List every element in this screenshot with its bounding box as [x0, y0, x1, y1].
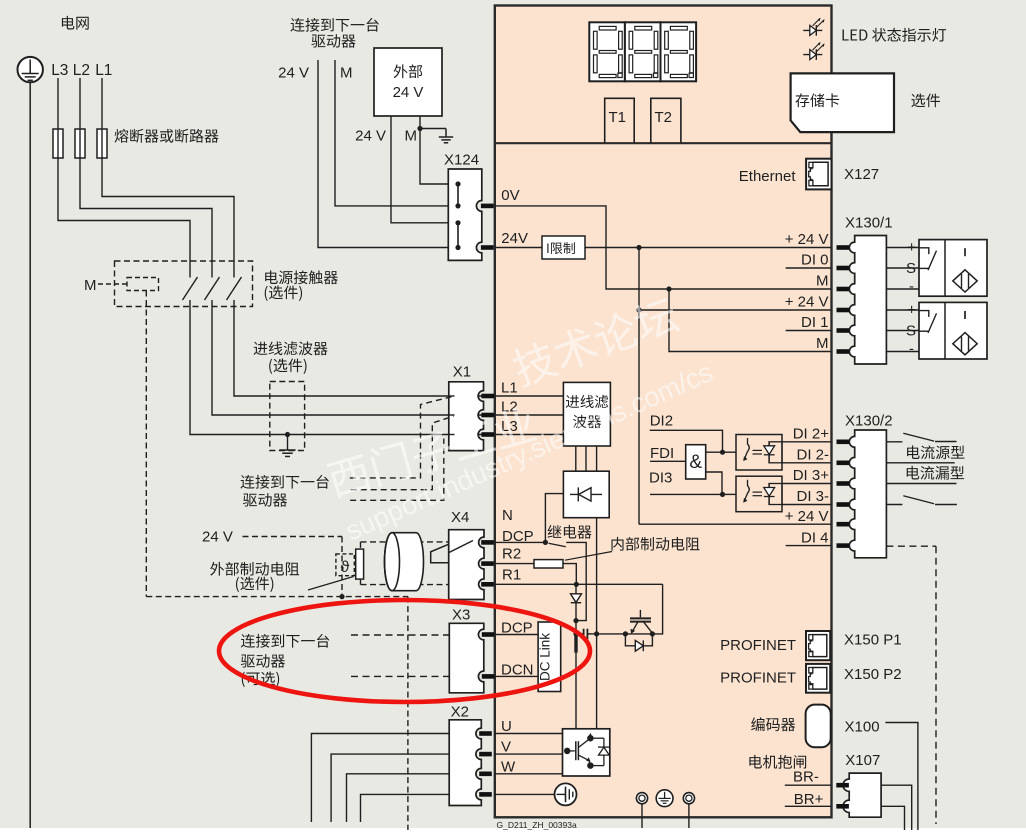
X130/1 pin 2: [837, 266, 850, 271]
dashed X3 wire 1: [351, 634, 449, 636]
control/power divider line: [495, 142, 832, 144]
wire DI2-: [782, 462, 831, 464]
label 驱动器 (X3): [241, 654, 285, 668]
optocoupler 1: [736, 435, 782, 471]
fuse F1: [97, 129, 107, 158]
wire V: [494, 753, 563, 755]
wire DI2: [650, 430, 723, 452]
label I限制: [547, 242, 575, 254]
svg-text:L1: L1: [95, 62, 112, 79]
label LED 状态指示灯: [843, 28, 947, 42]
svg-text:U: U: [501, 718, 512, 735]
wire DI2- ext: [886, 462, 954, 464]
dashed shield vertical: [407, 597, 409, 830]
X3 pin DCN: [482, 674, 495, 679]
wire chopper link: [597, 633, 626, 635]
wire PE to motor circle: [494, 793, 555, 795]
contactor contact 3: [227, 277, 242, 300]
7-segment digit 2: [625, 22, 661, 81]
svg-text:&: &: [689, 452, 702, 473]
junction R1: [574, 582, 579, 587]
fuse F2: [75, 129, 85, 158]
wire sensor2 +: [886, 309, 919, 311]
label 选件: [911, 93, 940, 107]
wire sensor2 S: [886, 330, 919, 332]
label 外部制动电阻: [210, 562, 299, 576]
connector X130/1: [849, 236, 886, 365]
shield terminal 1: [636, 793, 647, 804]
brake cable dashed left: [360, 542, 362, 585]
X1 pin L2: [481, 413, 494, 418]
wire L3 to contactor: [58, 158, 190, 278]
wire X107 out 1: [881, 785, 912, 830]
svg-text:N: N: [502, 507, 513, 524]
wire DI2+ ext: [886, 441, 902, 443]
wire stub L1 in X1: [449, 395, 455, 397]
label 电源接触器: [265, 270, 338, 284]
wire PE down: [29, 82, 31, 828]
svg-text:DI 2+: DI 2+: [793, 426, 830, 443]
X4 cable tick: [449, 541, 473, 553]
LED 2: [803, 42, 824, 60]
svg-text:24 V: 24 V: [355, 128, 386, 145]
X107 pin BR+: [836, 804, 849, 809]
X1 pin L1: [481, 394, 494, 399]
label 内部制动电阻: [611, 537, 699, 551]
svg-text:S: S: [906, 260, 916, 277]
sensor box 1: [919, 240, 987, 297]
wire DI3- ext: [886, 504, 902, 506]
dashed wire coil down: [145, 291, 147, 597]
wire relay fixed: [566, 542, 586, 620]
svg-text:BR-: BR-: [793, 769, 819, 786]
svg-text:24 V: 24 V: [278, 65, 309, 82]
wire U out: [311, 734, 449, 823]
memory card 存储卡: [791, 73, 894, 132]
wire relay coil: [545, 494, 563, 543]
junction DI3/AND: [720, 492, 725, 497]
wire DCN down: [596, 518, 598, 729]
svg-text:-: -: [909, 278, 914, 295]
wire +24V to X130/2: [639, 523, 831, 525]
X2 pin W: [479, 772, 492, 777]
X130/1 pin 5: [837, 328, 850, 333]
svg-text:DI 2-: DI 2-: [796, 447, 829, 464]
svg-text:+ 24 V: + 24 V: [785, 294, 829, 311]
wire +24V branch: [639, 309, 831, 311]
junction +24V a: [636, 245, 641, 250]
wire BR-: [785, 784, 831, 786]
label (选件) filter: [269, 358, 306, 373]
wire PE out: [361, 794, 450, 822]
dashed X3 wire 2: [351, 675, 449, 677]
svg-text:DI 0: DI 0: [801, 252, 829, 269]
wire BR+: [785, 805, 831, 807]
rectifier box: [563, 471, 609, 518]
dashed M rail horizontal: [146, 596, 408, 598]
svg-text:M: M: [816, 335, 829, 352]
wire M to ground: [420, 128, 446, 130]
wire R2 to resistor: [494, 563, 534, 565]
svg-text:24 V: 24 V: [393, 84, 424, 101]
label (选件) brake: [236, 576, 273, 591]
wire chopper mid: [625, 633, 652, 635]
switch DI3- blade: [903, 496, 934, 504]
filter ground symbol: [279, 450, 295, 456]
label 波器: [573, 415, 601, 428]
wire DI3: [650, 493, 723, 495]
svg-text:X130/2: X130/2: [845, 413, 893, 430]
svg-text:+: +: [907, 239, 916, 256]
svg-text:L1: L1: [501, 380, 518, 397]
red highlight ellipse: [219, 600, 590, 702]
wire 24V to X130/1: [585, 247, 831, 249]
contactor coil dashed box: [127, 278, 159, 291]
wire M branch: [669, 289, 831, 352]
AND gate box: [686, 445, 706, 479]
dashed wire M to coil: [98, 283, 127, 285]
internal brake resistor: [534, 560, 563, 568]
label 电流漏型: [907, 466, 964, 480]
X130/1 pin 4: [837, 308, 850, 313]
wire X3 DCN: [494, 675, 538, 677]
wire AND out 2: [706, 472, 722, 494]
wire sensor2 -: [886, 351, 919, 353]
svg-text:+ 24 V: + 24 V: [785, 508, 829, 525]
wire X100: [885, 723, 918, 831]
wire W: [494, 773, 563, 775]
wire filter-rect 1: [575, 446, 577, 471]
wire +24V down a: [638, 248, 640, 311]
svg-text:DI3: DI3: [649, 470, 672, 487]
svg-text:X4: X4: [451, 509, 469, 526]
wire FDI: [650, 460, 686, 462]
label (可选): [242, 671, 279, 686]
label 电流源型: [907, 445, 964, 459]
wire DI3-: [782, 504, 831, 506]
svg-text:V: V: [501, 739, 511, 756]
wire ext 24V: [391, 116, 448, 223]
connector X124: [448, 169, 482, 260]
inverter box: [563, 729, 610, 776]
svg-text:R1: R1: [502, 567, 521, 584]
wire M next-drive: [335, 60, 448, 206]
wire DI3 to opto: [723, 493, 737, 495]
connector X4: [449, 530, 484, 600]
DCP bus thick bar: [574, 634, 577, 653]
label 电网: [62, 16, 89, 30]
brake cable dashed bottom: [361, 584, 449, 586]
wire 0V: [495, 206, 831, 289]
junction +24V b: [636, 307, 641, 312]
7-segment digit 3: [661, 22, 697, 81]
contactor K1 dashed outline: [115, 261, 253, 307]
resistor label leader: [565, 552, 612, 561]
wire W out: [347, 774, 450, 822]
svg-text:X124: X124: [444, 152, 479, 169]
dashed DI4 vertical: [935, 546, 937, 824]
wire X107 out 2: [881, 806, 904, 830]
line filter box 进线滤: [563, 382, 610, 446]
wire filter-rect 2: [585, 446, 587, 471]
label 编码器: [751, 717, 795, 731]
wire L3 to filter: [190, 300, 563, 435]
svg-text:M: M: [84, 277, 97, 294]
svg-text:PROFINET: PROFINET: [720, 670, 796, 687]
ground PE terminal: [18, 57, 43, 82]
sensor box 2: [919, 302, 987, 359]
dashed thermo line: [341, 537, 343, 595]
X130/2 pin 2: [837, 461, 850, 466]
fuse F3: [53, 129, 63, 158]
connector X2: [449, 720, 481, 806]
wire V out: [331, 754, 449, 822]
wire ext M: [420, 116, 448, 184]
wire DI0 stub: [786, 267, 831, 269]
svg-text:FDI: FDI: [650, 445, 674, 462]
wire chopper to R1: [652, 584, 662, 634]
filter ground junction: [285, 432, 290, 437]
wire DI1 stub: [786, 330, 831, 332]
svg-text:S: S: [906, 323, 916, 340]
line filter dashed box: [270, 382, 305, 451]
X107 pin BR-: [836, 783, 849, 788]
brake label leader: [308, 577, 354, 591]
dashed next-drive wire 2: [351, 416, 454, 490]
connector X130/2: [849, 430, 886, 558]
svg-text:M: M: [816, 273, 829, 290]
motor PE circle: [555, 783, 577, 805]
T2 box: [651, 98, 681, 143]
svg-text:M: M: [340, 65, 353, 82]
svg-text:T1: T1: [609, 109, 627, 126]
svg-text:X107: X107: [845, 752, 880, 769]
wire sensor1 -: [886, 288, 919, 290]
dashed DI4 wire: [886, 545, 936, 547]
wire L3 top: [57, 78, 59, 158]
svg-text:R2: R2: [502, 546, 521, 563]
svg-text:24V: 24V: [501, 230, 528, 247]
svg-text:DI 4: DI 4: [801, 529, 829, 546]
wire X3 DCP: [494, 634, 538, 636]
label 连接到下一台 (top): [290, 18, 378, 32]
filter ground wire: [287, 435, 289, 451]
svg-text:G_D211_ZH_00393a: G_D211_ZH_00393a: [497, 820, 577, 830]
junction relay node: [573, 618, 578, 623]
junction DCP bus: [573, 631, 578, 636]
wire L2 top: [79, 78, 81, 158]
svg-text:T2: T2: [655, 109, 673, 126]
svg-text:PROFINET: PROFINET: [720, 637, 796, 654]
chopper IGBT: [630, 610, 652, 634]
svg-text:+ 24 V: + 24 V: [785, 231, 829, 248]
wire DI3+: [782, 483, 831, 485]
relay contact blade: [549, 543, 566, 547]
svg-text:BR+: BR+: [794, 791, 824, 808]
label (选件) contactor: [265, 285, 302, 300]
wire DI2+ ext 2: [935, 441, 957, 443]
svg-text:24 V: 24 V: [202, 529, 233, 546]
dashed next-drive wire 3: [350, 439, 444, 501]
junction DI2/AND: [720, 450, 725, 455]
svg-text:0V: 0V: [501, 187, 519, 204]
X124 pin 24V: [481, 245, 494, 250]
label 继电器: [548, 525, 592, 539]
dashed 24V brake line: [243, 536, 343, 538]
drive unit main box: [495, 6, 832, 818]
X124 jumper 1: [455, 181, 460, 208]
chopper diode: [635, 640, 643, 651]
svg-text:-: -: [909, 341, 914, 358]
rectifier diode symbol: [570, 487, 602, 501]
label 进线滤波器: [254, 341, 328, 355]
wire sensor1 S: [886, 267, 919, 269]
brake cable dashed top: [361, 541, 449, 543]
X130/1 pin 6: [837, 349, 850, 354]
encoder connector: [806, 705, 831, 748]
X1 pin L3: [481, 432, 494, 437]
wire DCP from X4: [494, 541, 545, 543]
wire sensor1 +: [886, 247, 919, 249]
label 外部: [394, 64, 423, 78]
connector X107: [843, 773, 881, 817]
label 连接到下一台 (X3): [241, 634, 329, 648]
wire stub L3 in X1: [449, 434, 455, 436]
svg-text:DI 3+: DI 3+: [793, 467, 830, 484]
contactor contact 2: [205, 277, 220, 300]
X2 pin PE: [479, 792, 492, 797]
X4 pin R1: [481, 582, 494, 587]
optocoupler 2: [736, 476, 782, 512]
wire diode down: [575, 603, 577, 634]
connector X3: [449, 623, 484, 693]
junction chopper right: [650, 631, 655, 636]
DC Link box: [538, 622, 561, 692]
wire stub L2 in X1: [449, 414, 455, 416]
PROFINET port 2 icon: [806, 664, 830, 693]
junction DCN: [594, 631, 599, 636]
7-segment digit 1: [589, 22, 625, 81]
X130/2 pin 6: [837, 543, 850, 548]
connector X1: [449, 382, 484, 451]
brake resistor terminal: [356, 549, 364, 579]
svg-text:ϑ: ϑ: [341, 559, 350, 576]
cable plug: [431, 544, 449, 562]
wire U: [494, 733, 563, 735]
cable ferrite cylinder: [385, 533, 424, 591]
label 连接到下一台 (X1): [240, 475, 328, 489]
wire DCP to inverter: [575, 653, 577, 729]
shield terminal 2: [683, 793, 694, 804]
watermark: [325, 294, 717, 547]
wire 24V to limiter: [495, 247, 542, 249]
wire shield 1 down: [641, 804, 643, 828]
DC link capacitor: [576, 629, 597, 640]
junction DCP relay: [543, 540, 548, 545]
junction thermo/M rail: [339, 594, 344, 599]
Ethernet port X127 icon: [806, 159, 831, 190]
PROFINET port 1 icon: [806, 631, 830, 660]
label 存储卡: [795, 93, 839, 107]
X2 pin V: [479, 752, 492, 757]
svg-text:X1: X1: [453, 364, 471, 381]
svg-text:M: M: [405, 128, 418, 145]
svg-text:X100: X100: [845, 719, 880, 736]
X130/2 pin 1: [837, 440, 850, 445]
wire L1 top: [101, 78, 103, 158]
svg-text:X127: X127: [844, 166, 879, 183]
label 驱动器 (top): [311, 34, 355, 48]
junction 0V M: [666, 286, 671, 291]
X130/2 pin 5: [837, 522, 850, 527]
X4 pin R2: [481, 561, 494, 566]
PE terminal bottom: [656, 790, 673, 807]
inverter IGBT symbol: [565, 733, 610, 768]
LED 1: [803, 18, 824, 36]
wire shield 2 down: [688, 804, 690, 828]
ext supply ground: [445, 129, 447, 138]
wire DI3+ ext: [886, 483, 956, 485]
wire resistor to R1: [563, 564, 576, 585]
svg-text:DI 1: DI 1: [801, 314, 829, 331]
X3 pin DCP: [482, 632, 495, 637]
wire filter-rect 3: [596, 446, 598, 471]
chopper diode loop: [625, 634, 635, 646]
wire +24V down b: [638, 310, 640, 524]
svg-text:X150 P1: X150 P1: [844, 632, 902, 649]
wire AND out 1: [706, 451, 736, 453]
dashed next-drive wire 1: [350, 396, 453, 478]
thermal sensor box: [336, 554, 354, 576]
svg-text:W: W: [501, 759, 516, 776]
external 24V supply box: [374, 48, 442, 116]
wire L2 to filter: [212, 300, 563, 415]
svg-text:L2: L2: [73, 62, 90, 79]
svg-text:X2: X2: [451, 704, 469, 721]
wire L1 to contactor: [102, 158, 234, 278]
svg-text:X3: X3: [452, 607, 470, 624]
svg-text:X150 P2: X150 P2: [844, 666, 902, 683]
bottom white strip: [0, 828, 1026, 830]
wire L2 to contactor: [80, 158, 212, 278]
label 熔断器或断路器: [115, 129, 219, 143]
X130/1 pin 1: [837, 245, 850, 250]
X130/2 pin 3: [837, 481, 850, 486]
X124 jumper 2: [455, 220, 460, 250]
label 进线滤: [566, 395, 608, 408]
switch DI2+ blade: [903, 433, 934, 441]
X4 pin DCP: [481, 540, 494, 545]
svg-text:DC Link: DC Link: [537, 633, 552, 681]
wire DI2+: [782, 441, 831, 443]
wire L1 to filter: [234, 300, 563, 396]
X2 pin U: [479, 731, 492, 736]
svg-text:Ethernet: Ethernet: [739, 168, 797, 185]
current limiter box: [542, 236, 585, 259]
diode D1 symbol: [571, 594, 582, 603]
X130/2 pin 4: [837, 502, 850, 507]
wire 24V next-drive: [318, 60, 448, 248]
svg-text:+: +: [907, 302, 916, 319]
chopper diode loop 2: [643, 634, 652, 646]
wire DI3- ext 2: [935, 504, 957, 506]
svg-text:L3: L3: [51, 62, 68, 79]
wire DI4 stub: [786, 545, 831, 547]
wire R1 down: [575, 584, 577, 593]
svg-text:X130/1: X130/1: [845, 215, 893, 232]
svg-text:DI2: DI2: [650, 413, 673, 430]
label 电机抱闸: [749, 755, 806, 769]
